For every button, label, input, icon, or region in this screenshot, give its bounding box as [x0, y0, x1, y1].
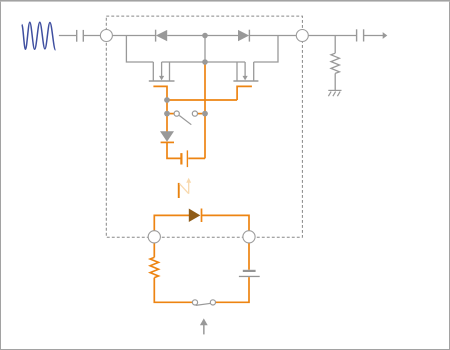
node A [100, 30, 112, 42]
diode D4 (points right) [189, 209, 202, 223]
resistor R2 [150, 257, 158, 277]
wire gate bus [167, 99, 237, 101]
junction gate bus [164, 97, 170, 103]
battery B1 [181, 150, 187, 167]
switch S1 contacts [174, 111, 179, 116]
node D [243, 231, 255, 243]
wire left branch to D3 [166, 114, 168, 132]
transistor Q1 (MOSFET, gate below) [149, 62, 175, 81]
wire battery B1 to center vertical [188, 157, 205, 159]
transistor Q2 (MOSFET, gate below) [233, 62, 258, 81]
wire C1 to node A [84, 35, 101, 37]
wire left drop to switch row [166, 100, 168, 114]
wire lower bottom right segment [215, 277, 249, 302]
gate wire Q1 (orange) [153, 86, 167, 100]
junction switch left [164, 111, 170, 117]
AC source V1 sine symbol [22, 22, 56, 50]
diode D1 (points left) [156, 30, 168, 42]
wire node A to D1 [112, 35, 155, 37]
wire D1 to D2 through node [167, 35, 238, 37]
ground [328, 90, 341, 96]
switch S2 contacts [192, 300, 197, 305]
wire gray center drop from top junction [204, 36, 206, 63]
wire R1 to ground [334, 73, 336, 90]
wire C2 to output arrow [364, 35, 383, 37]
switch S2 lever [196, 303, 211, 305]
junction second rail [202, 59, 208, 65]
actuation arrow [200, 318, 208, 334]
wire second rail right + riser [254, 36, 278, 63]
wire drop from top rail to second rail (left) [126, 36, 153, 63]
wire lower loop top-left [154, 215, 189, 257]
wire branch to R1 [334, 36, 336, 54]
wire switch stubs [167, 113, 174, 115]
resistor R1 [331, 53, 339, 73]
wire D2 to node B [249, 35, 296, 37]
ghost cursor annotation [178, 178, 191, 198]
gate wire Q2 (orange) [237, 86, 252, 100]
output arrow [383, 32, 388, 39]
diode D2 (points right) [238, 30, 249, 42]
wire second rail middle segment [162, 61, 246, 63]
capacitor C1 [77, 30, 84, 42]
wire source to C1 [59, 35, 76, 37]
dashed selection box [106, 16, 302, 237]
node C [148, 231, 160, 243]
wire lower loop top-right [202, 215, 250, 269]
wire D3 to battery B1 [167, 142, 181, 158]
junction switch right [202, 111, 208, 117]
switch S1 lever [179, 116, 191, 125]
battery B2 [239, 270, 260, 277]
diode D3 (points down) [160, 131, 174, 142]
wire lower left branch lower [154, 278, 192, 303]
junction top rail [202, 33, 208, 39]
wire center vertical (orange) [204, 62, 206, 158]
capacitor C2 [357, 29, 364, 41]
node B [296, 30, 308, 42]
wire node B to C2 [308, 35, 356, 37]
